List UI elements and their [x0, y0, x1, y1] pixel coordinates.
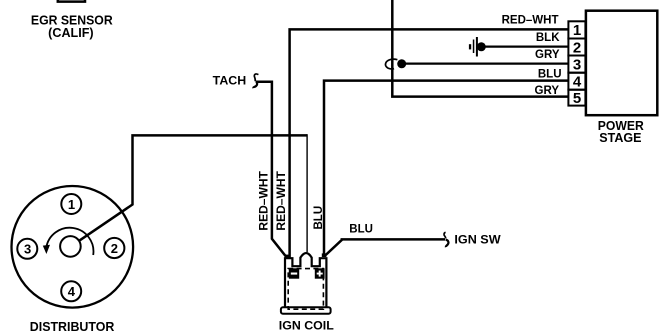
distributor	[12, 186, 134, 308]
svg-text:DISTRIBUTOR: DISTRIBUTOR	[30, 319, 115, 334]
wire: BLK to power stage pin 2	[481, 45, 568, 47]
IGN SW squiggle connector	[444, 232, 448, 247]
wire: GRY from top edge down to power stage pin 5	[392, 0, 568, 97]
wire: RED-WHT coil negative up and right to power stage pin 1	[290, 29, 569, 258]
cap terminal 2 circle	[104, 238, 124, 258]
power stage pin 1	[568, 21, 585, 38]
connector: bars and pin on BLK wire to pin 2	[469, 44, 471, 49]
power stage pin 2	[568, 39, 585, 56]
svg-text:BLU: BLU	[538, 68, 562, 80]
coil terminal studs	[286, 255, 291, 259]
wire: BLU coil positive up and right to power stage pin 4	[324, 81, 569, 257]
TACH squiggle connector	[253, 74, 258, 88]
power stage module box U1	[586, 11, 657, 116]
power stage pin 3	[568, 56, 585, 73]
svg-text:RED–WHT: RED–WHT	[502, 15, 559, 27]
power stage pin 5	[568, 90, 585, 106]
svg-text:BLK: BLK	[536, 32, 560, 44]
cap terminal 3 circle	[17, 239, 37, 259]
ignition coil base	[281, 307, 331, 314]
svg-text:RED–WHT: RED–WHT	[276, 171, 288, 231]
svg-text:BLU: BLU	[349, 224, 373, 236]
svg-text:2: 2	[573, 39, 581, 56]
wire: GRY to power stage pin 3	[402, 62, 569, 64]
svg-text:3: 3	[24, 242, 31, 257]
svg-text:4: 4	[68, 284, 76, 299]
wire: thin drop into coil HT tower	[306, 134, 308, 252]
rotation arc	[46, 228, 93, 255]
rotor circle	[60, 236, 81, 257]
POWER STAGE label	[598, 118, 645, 145]
svg-text:2: 2	[111, 241, 118, 256]
svg-text:3: 3	[573, 57, 581, 74]
ignition coil body	[285, 253, 326, 308]
svg-text:4: 4	[573, 74, 582, 91]
coil internal dashed outline	[288, 269, 323, 310]
svg-text:1: 1	[573, 22, 581, 39]
distributor housing circle	[12, 186, 134, 308]
EGR sensor box (partial, cropped at top)	[58, 0, 85, 2]
wire: TACH to junction, down to coil negative terminal	[256, 82, 288, 258]
power stage pin 4	[568, 73, 585, 90]
svg-text:STAGE: STAGE	[599, 130, 642, 145]
coil positive terminal	[315, 268, 325, 278]
terminal numbers	[24, 197, 118, 299]
svg-text:RED–WHT: RED–WHT	[258, 171, 270, 231]
svg-text:IGN COIL: IGN COIL	[279, 318, 334, 332]
svg-text:TACH: TACH	[213, 73, 247, 87]
svg-text:GRY: GRY	[535, 85, 560, 97]
rotation arrowhead	[43, 245, 50, 254]
svg-text:GRY: GRY	[535, 49, 560, 61]
pin numbers	[573, 22, 582, 107]
svg-text:1: 1	[68, 197, 75, 212]
svg-text:BLU: BLU	[313, 206, 325, 230]
wire: BLU from coil positive to IGN SW	[324, 239, 445, 256]
svg-text:(CALIF): (CALIF)	[48, 26, 93, 40]
cap terminal 1 circle	[61, 194, 81, 214]
wire: distributor rotor to coil center tower	[79, 135, 308, 241]
svg-text:IGN SW: IGN SW	[454, 232, 501, 246]
svg-text:5: 5	[573, 90, 581, 107]
coil negative terminal	[289, 268, 299, 278]
cap terminal 4 circle	[61, 281, 81, 301]
wire labels at power stage	[502, 15, 562, 97]
EGR sensor label	[31, 13, 113, 40]
connector: hook and pin on GRY wire to pin 3	[385, 59, 397, 69]
